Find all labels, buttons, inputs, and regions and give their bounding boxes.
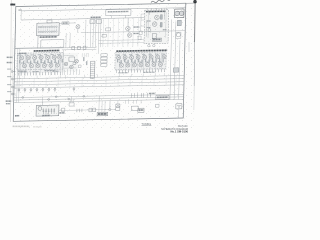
svg-text:No.1 SM-5100: No.1 SM-5100 (171, 130, 189, 134)
